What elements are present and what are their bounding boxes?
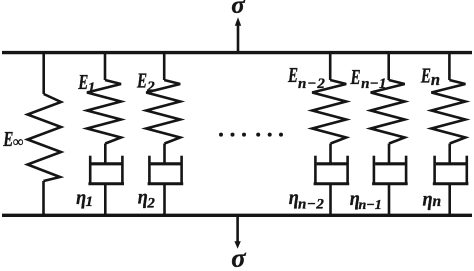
svg-text:E: E (136, 69, 147, 92)
label eta_n (423, 187, 442, 211)
wire: bottom stub of branch n-1 (388, 184, 391, 216)
spring En-1 (371, 80, 405, 144)
svg-text:n: n (431, 70, 440, 89)
wire: bottom stub of E_inf branch (42, 181, 45, 216)
label E_2 (136, 69, 155, 95)
svg-text:n−1: n−1 (359, 198, 382, 213)
label E_n (420, 64, 440, 89)
branch n-1: Maxwell element En-1/eta n-1 (371, 51, 408, 216)
dashpot eta2 (cylinder walls, bottom, piston plate) (148, 156, 184, 184)
label eta_n-2 (289, 186, 325, 213)
dashpot eta n-1 (cylinder walls, bottom, piston plate) (372, 156, 408, 184)
wire: top stub of branch n-2 (329, 51, 332, 80)
svg-text:1: 1 (88, 80, 96, 96)
wire: top rail (upper loading bar) (2, 51, 472, 54)
svg-text:n−1: n−1 (361, 76, 387, 92)
wire: bottom stub of branch n-2 (329, 184, 332, 216)
svg-text:E: E (287, 64, 298, 87)
label eta_1 (76, 185, 93, 210)
svg-text:∞: ∞ (13, 135, 24, 151)
wire: bottom rail (lower loading bar) (2, 214, 472, 217)
label E_n-1 (350, 66, 387, 92)
wire: piston rod of branch n-2 (329, 144, 332, 164)
label eta_2 (138, 185, 156, 211)
branch n-2: Maxwell element En-2/eta n-2 (312, 51, 349, 216)
arrow: applied stress (bottom, pointing down) (234, 215, 240, 249)
svg-text:2: 2 (146, 196, 155, 212)
wire: piston rod of branch 1 (104, 144, 107, 164)
spring E2 (146, 80, 180, 144)
label E_1 (77, 70, 95, 96)
spring En (431, 80, 465, 144)
dashpot eta n (cylinder walls, bottom, piston plate) (433, 156, 469, 184)
wire: bottom stub of branch n (448, 184, 451, 216)
svg-text:1: 1 (86, 194, 94, 210)
wire: top stub of branch 1 (104, 51, 107, 80)
branch n: Maxwell element En/eta n (431, 51, 468, 216)
svg-text:E: E (420, 64, 431, 87)
wire: top stub of branch 2 (163, 51, 166, 80)
wire: top stub of branch n (448, 51, 451, 80)
svg-text:E: E (350, 66, 361, 89)
branch E_inf: equilibrium spring (28, 51, 62, 216)
spring E_inf (28, 94, 62, 181)
svg-text:η: η (138, 185, 148, 209)
wire: bottom stub of branch 2 (163, 184, 166, 216)
arrow: applied stress (top, pointing up) (235, 17, 241, 52)
label eta_n-1 (350, 187, 382, 213)
spring En-2 (312, 80, 346, 144)
wire: top stub of E_inf branch (42, 51, 45, 94)
branch 2: Maxwell element E2/eta2 (146, 51, 183, 216)
wire: piston rod of branch 2 (163, 144, 166, 164)
wire: bottom stub of branch 1 (104, 184, 107, 216)
wire: piston rod of branch n (448, 144, 451, 164)
svg-text:σ: σ (231, 0, 246, 19)
wire: piston rod of branch n-1 (388, 144, 391, 164)
label E_inf (2, 128, 23, 151)
svg-text:η: η (423, 187, 433, 211)
spring E1 (87, 80, 121, 144)
wire: top stub of branch n-1 (387, 51, 390, 80)
svg-text:2: 2 (146, 79, 155, 95)
dashpot eta1 (cylinder walls, bottom, piston plate) (88, 156, 124, 184)
branch 1: Maxwell element E1/eta1 (87, 51, 124, 216)
svg-text:n: n (433, 193, 442, 210)
dashpot eta n-2 (cylinder walls, bottom, piston plate) (314, 156, 350, 184)
ellipsis dots (continuation of parallel branches) (219, 133, 283, 137)
svg-text:σ: σ (231, 242, 246, 271)
svg-text:n−2: n−2 (298, 196, 324, 212)
label E_n-2 (287, 64, 326, 93)
svg-text:n−2: n−2 (298, 76, 326, 92)
